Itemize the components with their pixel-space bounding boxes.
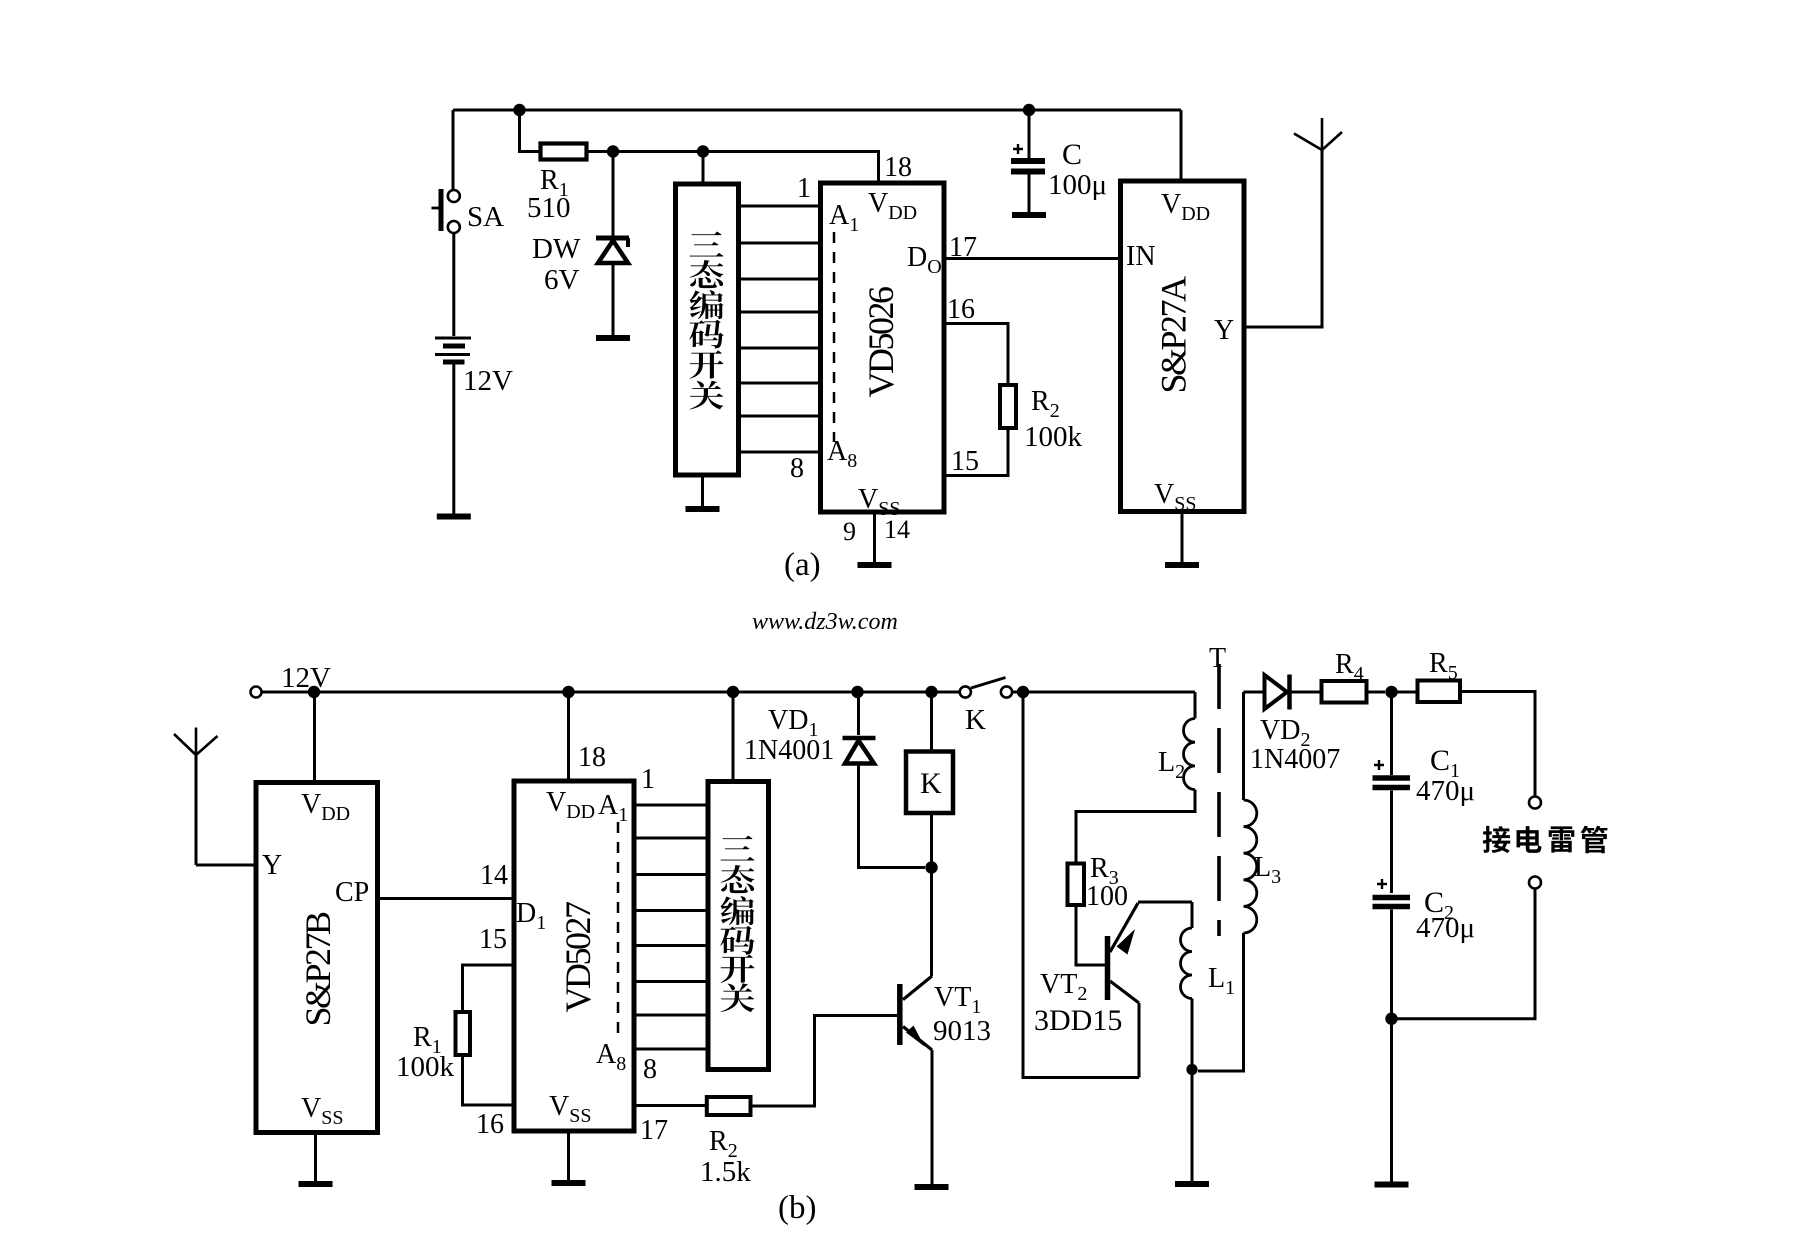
pin D0/17 wire: [907, 232, 1121, 278]
svg-text:17: 17: [949, 232, 977, 263]
resistor R2 100k (a) with pins 16/15: [944, 294, 1083, 477]
svg-text:14: 14: [480, 860, 508, 891]
pin label 8 (a): [790, 453, 804, 484]
ground (C): [1012, 212, 1046, 218]
wire switch to battery: [452, 233, 455, 336]
battery 12V: [435, 338, 513, 397]
ground (DW): [596, 335, 630, 341]
node junction R1 top: [513, 104, 525, 116]
svg-text:IN: IN: [1126, 241, 1156, 272]
svg-text:K: K: [920, 767, 942, 800]
svg-text:VD5027: VD5027: [558, 902, 598, 1012]
wire top supply rail (a): [453, 109, 1181, 112]
encoder switch box 三态编码开关 (a): [676, 184, 739, 475]
svg-text:DW: DW: [532, 233, 581, 265]
wire rail to R1: [520, 110, 541, 152]
svg-text:1: 1: [641, 764, 655, 795]
wire 12V rail (b): [262, 691, 1196, 694]
node junction VD1/relay/VT1: [925, 861, 937, 873]
watermark www.dz3w.com: [752, 609, 898, 635]
svg-text:S&P27B: S&P27B: [298, 912, 338, 1027]
svg-text:16: 16: [476, 1109, 504, 1140]
wire encoder ground stem (a): [701, 475, 704, 506]
wire VDD stem (S&P27B): [313, 692, 316, 783]
label 接电雷管 (to electric detonator): [1483, 826, 1608, 853]
transformer core T: [1209, 643, 1226, 936]
resistor R1 510: [527, 144, 587, 225]
svg-text:1: 1: [797, 173, 811, 204]
ground (battery): [437, 514, 471, 520]
capacitor C 100μ: [1011, 110, 1107, 212]
resistor R1 100k (b) with pins 15/16: [396, 924, 514, 1140]
svg-text:8: 8: [643, 1054, 657, 1085]
encoder switch box 三态编码开关 (b): [708, 782, 769, 1070]
IC U1 VD5026: [821, 152, 945, 546]
pin label 1 (b): [641, 764, 655, 795]
coil L3: [1198, 692, 1281, 1071]
resistor R4: [1322, 649, 1386, 703]
svg-text:6V: 6V: [544, 264, 580, 296]
wire VSS stem (VD5026): [873, 512, 876, 562]
pin label 8 (b): [643, 1054, 657, 1085]
svg-text:510: 510: [527, 192, 571, 224]
node junction encoder VDD (a): [697, 145, 709, 157]
pin label 1 (a): [797, 173, 811, 204]
terminal upper (detonator): [1529, 797, 1541, 809]
wire R1 to VD5026 VDD (node line): [587, 152, 879, 184]
svg-text:18: 18: [884, 152, 912, 183]
svg-text:12V: 12V: [463, 365, 513, 397]
svg-text:100μ: 100μ: [1048, 169, 1107, 201]
IC U4 VD5027: [514, 742, 634, 1131]
node junction K / VT2 branch: [1017, 686, 1029, 698]
wire transformer ground stem: [1191, 1070, 1194, 1182]
zener diode DW 6V: [532, 152, 629, 336]
svg-text:3DD15: 3DD15: [1034, 1004, 1122, 1037]
pin label 17 (b): [640, 1115, 668, 1146]
ground (encoder a): [686, 506, 720, 512]
wire battery/switch drop (a): [452, 110, 455, 190]
wire battery to ground: [452, 362, 455, 514]
wire CP to D1 pin 14: [378, 860, 515, 899]
svg-text:100k: 100k: [1024, 421, 1083, 453]
svg-text:14: 14: [884, 515, 910, 544]
svg-text:SA: SA: [467, 201, 504, 233]
switch K: [960, 678, 1012, 737]
pushbutton SA: [432, 189, 505, 233]
svg-text:470μ: 470μ: [1416, 912, 1475, 944]
svg-text:T: T: [1209, 643, 1226, 674]
svg-text:C: C: [1062, 138, 1082, 171]
svg-text:(b): (b): [778, 1190, 816, 1226]
coil L2: [1076, 692, 1195, 863]
svg-text:1.5k: 1.5k: [700, 1156, 751, 1188]
relay coil K: [906, 692, 953, 868]
wire encoder VDD stem (b): [732, 692, 735, 782]
svg-text:S&P27A: S&P27A: [1154, 276, 1194, 394]
node junction relay K: [925, 686, 937, 698]
svg-text:K: K: [965, 704, 986, 736]
wire VDD stem (VD5027): [567, 692, 570, 781]
svg-text:470μ: 470μ: [1416, 775, 1475, 807]
label (a): [784, 547, 821, 583]
node junction L1/L3 ground: [1186, 1064, 1197, 1075]
svg-text:Y: Y: [1214, 315, 1234, 346]
node junction VD5027 VDD: [562, 686, 574, 698]
transistor VT1 9013: [900, 868, 991, 1185]
svg-text:15: 15: [479, 924, 507, 955]
ground (transformer): [1175, 1181, 1209, 1187]
node junction S&P27B VDD: [308, 686, 320, 698]
capacitor C2 470μ: [1373, 879, 1476, 1182]
wire VSS stem (VD5027): [567, 1131, 570, 1180]
IC U2 S&P27A: [1121, 181, 1245, 515]
antenna (b): [174, 728, 256, 866]
svg-text:www.dz3w.com: www.dz3w.com: [752, 609, 898, 635]
svg-text:12V: 12V: [281, 662, 331, 694]
capacitor C1 470μ: [1373, 692, 1476, 893]
wire K node to VT2 emitter loop: [1023, 692, 1139, 1078]
svg-text:Y: Y: [262, 850, 282, 881]
diode VD1 1N4001: [744, 692, 925, 868]
node junction C1 top: [1385, 686, 1397, 698]
node junction encoder VDD (b): [727, 686, 739, 698]
wire VSS stem (S&P27B): [314, 1133, 317, 1182]
svg-text:CP: CP: [335, 877, 369, 908]
IC U3 S&P27B: [256, 783, 378, 1133]
ground (VD5027): [552, 1180, 586, 1186]
diode VD2 1N4007: [1244, 675, 1341, 776]
svg-text:15: 15: [951, 446, 979, 477]
svg-text:(a): (a): [784, 547, 821, 583]
svg-text:9: 9: [843, 517, 856, 546]
svg-text:16: 16: [947, 294, 975, 325]
node junction C2 bottom: [1385, 1013, 1397, 1025]
address bus lines A1-A8 (b): [634, 805, 708, 1049]
terminal 12V (b): [251, 662, 332, 698]
svg-text:18: 18: [578, 742, 606, 773]
coil L1: [1181, 902, 1236, 1069]
svg-text:VD5026: VD5026: [861, 287, 901, 397]
svg-text:100k: 100k: [396, 1051, 455, 1083]
ground (S&P27B): [299, 1181, 333, 1187]
wire VDD stem (S&P27A): [1180, 110, 1183, 181]
svg-text:1N4001: 1N4001: [744, 735, 834, 766]
svg-text:17: 17: [640, 1115, 668, 1146]
node junction C cap: [1023, 104, 1035, 116]
node junction VD1: [851, 686, 863, 698]
terminal lower (detonator): [1392, 877, 1542, 1019]
ground (output filter): [1375, 1182, 1409, 1188]
resistor R5: [1392, 648, 1536, 797]
transistor VT2 3DD15: [1034, 902, 1192, 1078]
wire VSS stem (S&P27A): [1181, 512, 1184, 563]
svg-text:100: 100: [1086, 881, 1128, 912]
svg-text:1N4007: 1N4007: [1250, 744, 1340, 775]
address bus lines A1-A8 (a): [739, 206, 821, 452]
resistor R3 100: [1068, 853, 1129, 965]
resistor R2 1.5k (b): [634, 1016, 897, 1189]
wire encoder VDD stem (a): [702, 152, 705, 185]
label (b): [778, 1190, 816, 1226]
svg-text:9013: 9013: [933, 1015, 991, 1047]
ground (VD5026): [858, 562, 892, 568]
ground (S&P27A): [1165, 562, 1199, 568]
ground (VT1): [915, 1184, 949, 1190]
svg-text:8: 8: [790, 453, 804, 484]
node junction DW: [607, 145, 619, 157]
antenna (a) with Y wire: [1244, 118, 1342, 327]
